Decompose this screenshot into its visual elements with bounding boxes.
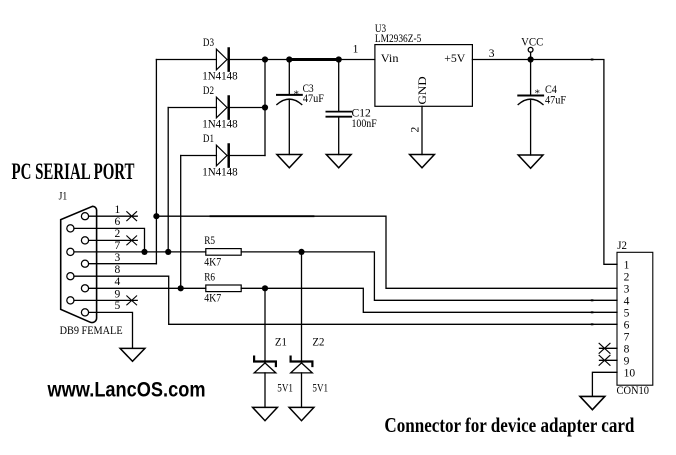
svg-text:GND: GND — [415, 76, 429, 105]
wire J2 pin8 stub — [600, 347, 618, 349]
no-connect X on J2 pin9 — [599, 355, 610, 365]
no-connect X on J1 pin9 — [127, 296, 137, 305]
zener Z1 — [264, 288, 266, 363]
wire J1 pin6 to pin7 net — [74, 228, 145, 252]
wire TxD net J1 pin3 to J2 pin3 — [156, 216, 617, 288]
junction VCC on output rail — [528, 56, 534, 62]
wire J1 pin3 to riser — [89, 263, 157, 265]
wire J1 pin2 stub — [89, 239, 138, 241]
VCC node symbol — [528, 47, 533, 52]
svg-text:3: 3 — [489, 48, 495, 60]
svg-text:6: 6 — [115, 216, 121, 228]
wire R5 to J2 pin4 — [241, 252, 617, 300]
J1 pin 1 hole — [81, 213, 88, 220]
diode D3 — [216, 49, 227, 70]
resistor R6 — [206, 285, 241, 292]
wire U3 +5V output to VCC and J2 pin1 — [472, 60, 617, 265]
wire D3 anode — [156, 59, 216, 61]
capacitor C12 — [338, 60, 340, 112]
resistor R5 — [206, 249, 241, 256]
svg-text:D1: D1 — [203, 131, 214, 145]
svg-text:*: * — [294, 89, 300, 101]
ground symbol C12 — [326, 155, 351, 168]
connector J1 DB9 outline — [61, 206, 97, 322]
J1 pin 6 hole — [67, 225, 74, 232]
ground symbol Z2 — [289, 407, 314, 420]
svg-text:2: 2 — [624, 271, 630, 283]
wire J1 pin1 stub — [89, 215, 138, 217]
svg-text:3: 3 — [624, 283, 630, 295]
ground symbol J1 pin5 — [120, 348, 145, 361]
wire D2 anode — [168, 107, 216, 109]
svg-text:10: 10 — [624, 367, 636, 379]
svg-text:R6: R6 — [204, 269, 215, 283]
diode D2 — [216, 97, 227, 118]
svg-text:1N4148: 1N4148 — [202, 68, 238, 82]
capacitor C3 — [288, 60, 290, 95]
wire J1 pin7 to R5 — [74, 251, 206, 253]
wire riser J1 pin3 / D3 — [155, 60, 157, 264]
svg-text:J1: J1 — [59, 189, 68, 203]
wire U3 GND pin to ground — [421, 106, 423, 154]
svg-text:Connector for device adapter c: Connector for device adapter card — [384, 413, 634, 437]
junction D2 on pin7 net — [165, 249, 171, 255]
junction D3 riser with TxD net — [153, 213, 159, 219]
svg-text:2: 2 — [409, 127, 421, 133]
wire D2 cathode — [230, 107, 265, 109]
svg-text:Z1: Z1 — [275, 335, 287, 349]
svg-text:+5V: +5V — [444, 51, 465, 65]
no-connect X on J1 pin2 — [127, 236, 137, 245]
wire input rail thick segment — [289, 58, 338, 61]
svg-text:47uF: 47uF — [303, 91, 324, 105]
stray tick marks (artifacts in source) — [591, 299, 594, 301]
svg-text:J2: J2 — [617, 238, 627, 252]
junction C3 on rail — [286, 56, 292, 62]
svg-text:4K7: 4K7 — [204, 255, 221, 269]
svg-text:1N4148: 1N4148 — [202, 164, 238, 178]
wire R6 to J2 pin5 — [241, 288, 617, 312]
junction D1 on pin4 net — [178, 285, 184, 291]
svg-text:*: * — [535, 88, 541, 100]
svg-text:VCC: VCC — [521, 34, 543, 48]
svg-text:100nF: 100nF — [352, 116, 377, 130]
svg-text:1: 1 — [624, 259, 630, 271]
ground symbol J2 pin10 — [580, 396, 605, 409]
regulator U3 box — [375, 45, 473, 107]
svg-text:1: 1 — [353, 44, 359, 56]
wire input rail to U3 Vin — [265, 59, 375, 61]
svg-text:7: 7 — [624, 331, 630, 343]
svg-text:8: 8 — [624, 343, 630, 355]
svg-text:1N4148: 1N4148 — [202, 116, 238, 130]
svg-text:3: 3 — [115, 252, 121, 264]
svg-text:5V1: 5V1 — [277, 381, 293, 395]
wire J1 pin5 to ground — [89, 312, 133, 348]
svg-text:D2: D2 — [203, 83, 214, 97]
svg-text:9: 9 — [624, 355, 630, 367]
J1 pin 3 hole — [81, 260, 88, 267]
svg-text:47uF: 47uF — [545, 93, 566, 107]
wire D1 cathode — [230, 155, 265, 157]
J1 pin 7 hole — [67, 248, 74, 255]
wire VCC stub — [530, 52, 532, 59]
wire J2 pin9 stub — [600, 359, 618, 361]
ground symbol Z1 — [253, 407, 278, 420]
no-connect X on J1 pin1 — [127, 212, 137, 221]
svg-text:LM2936Z-5: LM2936Z-5 — [375, 31, 421, 45]
J1 pin 8 hole — [67, 273, 74, 280]
J1 pin 4 hole — [81, 285, 88, 292]
wire riser D2 to pin7 net — [167, 108, 169, 252]
ground symbol C3 — [277, 155, 302, 168]
svg-text:9: 9 — [115, 288, 121, 300]
svg-text:7: 7 — [115, 240, 121, 252]
zener Z2 — [301, 252, 303, 363]
wire J1 pin8 route to J2 pin6 — [74, 276, 617, 324]
diode D1 — [216, 145, 227, 166]
connector J2 box — [617, 252, 653, 385]
wire J1 pin4 to R6 — [89, 287, 206, 289]
J1 pin 5 hole — [81, 309, 88, 316]
wire riser D1 to pin4 net — [180, 156, 182, 289]
svg-text:Vin: Vin — [381, 51, 399, 65]
junction Z1 on R6 net — [262, 285, 268, 291]
svg-text:DB9 FEMALE: DB9 FEMALE — [60, 323, 123, 337]
J1 pin 2 hole — [81, 237, 88, 244]
junction pin6/pin7 — [141, 249, 147, 255]
svg-text:4: 4 — [624, 295, 630, 307]
wire D3 cathode — [230, 59, 265, 61]
svg-text:5: 5 — [115, 300, 121, 312]
svg-text:R5: R5 — [204, 233, 215, 247]
junction Z2 on R5 net — [298, 249, 304, 255]
svg-text:Z2: Z2 — [312, 335, 324, 349]
junction C12 on rail — [336, 56, 342, 62]
svg-text:4K7: 4K7 — [204, 291, 221, 305]
wire cathode bus vertical — [264, 60, 266, 156]
svg-text:8: 8 — [115, 264, 121, 276]
wire TxD thick segment — [211, 215, 314, 217]
svg-text:www.LancOS.com: www.LancOS.com — [47, 379, 206, 402]
svg-text:6: 6 — [624, 319, 630, 331]
junction cathode bus top — [262, 56, 268, 62]
ground symbol U3 — [410, 155, 435, 168]
wire D1 anode — [181, 155, 217, 157]
svg-text:2: 2 — [115, 228, 121, 240]
ground symbol C4 — [518, 155, 543, 168]
wire J2 pin10 to ground — [592, 372, 617, 396]
svg-text:1: 1 — [115, 204, 121, 216]
svg-text:PC SERIAL PORT: PC SERIAL PORT — [12, 159, 135, 184]
svg-text:D3: D3 — [203, 35, 214, 49]
junction cathode bus D2 — [262, 104, 268, 110]
svg-text:5V1: 5V1 — [312, 381, 328, 395]
svg-text:5: 5 — [624, 307, 630, 319]
J1 pin 9 hole — [67, 297, 74, 304]
svg-text:CON10: CON10 — [617, 383, 650, 397]
no-connect X on J2 pin8 — [599, 343, 610, 353]
wire J1 pin9 stub — [74, 299, 137, 301]
capacitor C4 — [530, 60, 532, 96]
svg-text:4: 4 — [115, 276, 121, 288]
